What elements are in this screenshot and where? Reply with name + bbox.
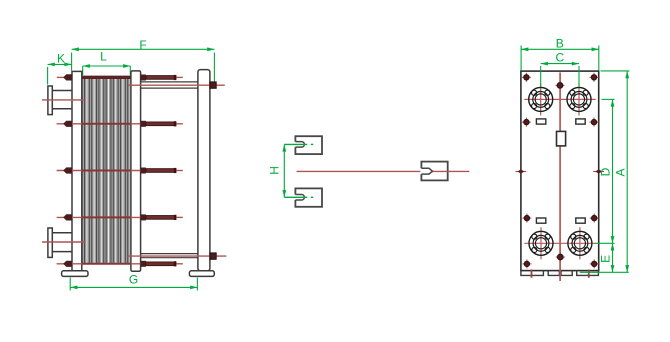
svg-text:E: E [599, 255, 613, 263]
svg-text:F: F [139, 38, 146, 52]
svg-text:D: D [598, 167, 612, 176]
svg-text:C: C [555, 50, 564, 64]
svg-text:H: H [268, 166, 282, 175]
svg-text:L: L [100, 49, 107, 63]
svg-text:B: B [556, 36, 564, 50]
svg-text:A: A [614, 168, 628, 176]
svg-text:K: K [57, 52, 65, 66]
svg-text:G: G [129, 273, 138, 287]
